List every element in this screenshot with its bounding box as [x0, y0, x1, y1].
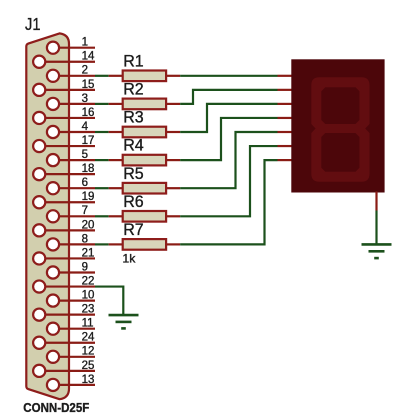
pin 15 circle [33, 84, 45, 96]
label 1k value of R7 [122, 251, 136, 265]
svg-text:14: 14 [82, 51, 95, 63]
ground symbol under display [362, 244, 392, 258]
pin 3 wire [53, 103, 95, 105]
label J1 [25, 14, 41, 34]
svg-text:7: 7 [82, 205, 88, 217]
svg-text:23: 23 [82, 304, 95, 316]
pin 20 wire [39, 229, 95, 231]
svg-text:5: 5 [82, 149, 88, 161]
svg-text:R1: R1 [123, 51, 144, 70]
svg-text:CONN-D25F: CONN-D25F [23, 400, 89, 415]
label R2 [123, 80, 144, 99]
pin 8 number [82, 233, 88, 245]
pin 18 number [82, 163, 95, 175]
wire connector pin 8 to resistor R7 [95, 243, 109, 245]
pin 3 number [82, 93, 88, 105]
pin 23 number [82, 304, 95, 316]
svg-text:17: 17 [82, 135, 95, 147]
pin 9 circle [47, 266, 59, 278]
pin 21 circle [33, 252, 45, 264]
pin 13 wire [53, 384, 95, 386]
pin 10 number [82, 290, 95, 302]
pin 5 number [82, 149, 88, 161]
pin 16 circle [33, 112, 45, 124]
pin 18 circle [33, 168, 45, 180]
svg-text:R4: R4 [123, 136, 144, 155]
svg-text:1: 1 [82, 37, 88, 49]
resistor R7 [109, 239, 180, 250]
resistor R5 [109, 183, 180, 194]
pin 18 wire [39, 173, 95, 175]
label R7 [123, 220, 144, 239]
pin 12 number [82, 346, 95, 358]
svg-text:4: 4 [82, 121, 89, 133]
pin 2 number [82, 65, 88, 77]
label R6 [123, 192, 144, 211]
connector J1 body [26, 33, 69, 399]
wire R5 to display pin 5 [180, 132, 277, 188]
pin 3 circle [47, 98, 59, 110]
svg-text:15: 15 [82, 79, 95, 91]
pin 19 number [82, 191, 95, 203]
label R5 [123, 164, 144, 183]
svg-text:6: 6 [82, 177, 88, 189]
pin 15 number [82, 79, 95, 91]
wire R7 to display pin 7 [180, 160, 277, 244]
pin 20 circle [33, 224, 45, 236]
pin 25 number [82, 360, 95, 372]
wire R3 to display pin 3 [180, 104, 277, 132]
wire connector pin 2 to resistor R1 [95, 75, 109, 77]
pin 13 number [82, 374, 95, 386]
pin 24 number [82, 332, 95, 344]
pin 24 circle [33, 337, 45, 349]
display common pin wire [375, 192, 377, 211]
pin 14 circle [33, 56, 45, 68]
pin 14 wire [39, 61, 95, 63]
pin 17 number [82, 135, 95, 147]
pin 23 wire [39, 314, 95, 316]
pin 11 wire [53, 328, 95, 330]
pin 2 wire [53, 75, 95, 77]
label R1 [123, 51, 144, 70]
svg-text:3: 3 [82, 93, 88, 105]
svg-text:12: 12 [82, 346, 95, 358]
svg-text:10: 10 [82, 290, 95, 302]
display pin 5 stub [278, 131, 293, 133]
display pin 1 stub [278, 75, 293, 77]
svg-text:8: 8 [82, 233, 88, 245]
wire pin 22 to ground [95, 287, 123, 316]
wire R4 to display pin 4 [180, 118, 277, 160]
pin 13 circle [47, 379, 59, 391]
wire display to ground [375, 211, 377, 245]
pin 21 number [82, 247, 95, 259]
pin 15 wire [39, 89, 95, 91]
wire R1 to display pin 1 [180, 75, 277, 77]
svg-text:21: 21 [82, 247, 95, 259]
pin 8 wire [53, 243, 95, 245]
pin 12 circle [47, 351, 59, 363]
pin 10 wire [53, 300, 95, 302]
svg-text:9: 9 [82, 261, 88, 273]
svg-text:2: 2 [82, 65, 88, 77]
wire R6 to display pin 6 [180, 146, 277, 216]
pin 7 circle [47, 210, 59, 222]
resistor R6 [109, 211, 180, 222]
svg-text:R5: R5 [123, 164, 144, 183]
svg-text:R7: R7 [123, 220, 144, 239]
7-segment display digit 8 [311, 77, 369, 182]
pin 6 wire [53, 187, 95, 189]
pin 17 wire [39, 145, 95, 147]
pin 16 number [82, 107, 95, 119]
svg-text:25: 25 [82, 360, 95, 372]
pin 6 number [82, 177, 88, 189]
resistor R1 [109, 71, 180, 82]
wire connector pin 5 to resistor R4 [95, 159, 109, 161]
pin 16 wire [39, 117, 95, 119]
7-segment display body [291, 59, 384, 192]
pin 10 circle [47, 295, 59, 307]
pin 11 circle [47, 323, 59, 335]
pin 24 wire [39, 342, 95, 344]
pin 1 wire [53, 47, 95, 49]
wire connector pin 6 to resistor R5 [95, 187, 109, 189]
pin 12 wire [53, 356, 95, 358]
pin 8 circle [47, 238, 59, 250]
resistor R3 [109, 127, 180, 138]
pin 22 wire [39, 285, 95, 287]
svg-text:20: 20 [82, 219, 95, 231]
pin 7 wire [53, 215, 95, 217]
pin 4 circle [47, 126, 59, 138]
pin 6 circle [47, 182, 59, 194]
svg-text:13: 13 [82, 374, 95, 386]
pin 11 number [82, 318, 94, 330]
resistor R2 [109, 99, 180, 110]
wire connector pin 4 to resistor R3 [95, 131, 109, 133]
pin 1 number [82, 37, 88, 49]
pin 17 circle [33, 140, 45, 152]
pin 1 circle [47, 42, 59, 54]
svg-text:16: 16 [82, 107, 95, 119]
pin 2 circle [47, 70, 59, 82]
svg-text:22: 22 [82, 275, 95, 287]
pin 4 wire [53, 131, 95, 133]
pin 5 wire [53, 159, 95, 161]
label R3 [123, 108, 144, 127]
pin 25 wire [39, 370, 95, 372]
pin 9 wire [53, 271, 95, 273]
wire connector pin 7 to resistor R6 [95, 215, 109, 217]
svg-text:11: 11 [82, 318, 94, 330]
pin 14 number [82, 51, 95, 63]
ground symbol at pin 22 [109, 315, 139, 328]
svg-text:18: 18 [82, 163, 95, 175]
pin 7 number [82, 205, 88, 217]
display pin 6 stub [278, 145, 293, 147]
svg-text:R6: R6 [123, 192, 144, 211]
pin 20 number [82, 219, 95, 231]
label CONN-D25F [23, 400, 89, 415]
label R4 [123, 136, 144, 155]
pin 19 circle [33, 196, 45, 208]
svg-text:R3: R3 [123, 108, 144, 127]
resistor R4 [109, 155, 180, 166]
display pin 3 stub [278, 103, 293, 105]
pin 22 number [82, 275, 95, 287]
pin 9 number [82, 261, 88, 273]
wire R2 to display pin 2 [180, 90, 277, 104]
pin 19 wire [39, 201, 95, 203]
svg-text:R2: R2 [123, 80, 144, 99]
pin 4 number [82, 121, 89, 133]
display pin 4 stub [278, 117, 293, 119]
display pin 7 stub [278, 159, 293, 161]
pin 25 circle [33, 365, 45, 377]
wire connector pin 3 to resistor R2 [95, 103, 109, 105]
pin 22 circle [33, 280, 45, 292]
pin 23 circle [33, 309, 45, 321]
pin 5 circle [47, 154, 59, 166]
svg-text:19: 19 [82, 191, 95, 203]
pin 21 wire [39, 257, 95, 259]
svg-text:24: 24 [82, 332, 95, 344]
svg-text:1k: 1k [122, 251, 136, 265]
svg-text:J1: J1 [25, 14, 41, 34]
display pin 2 stub [278, 89, 293, 91]
